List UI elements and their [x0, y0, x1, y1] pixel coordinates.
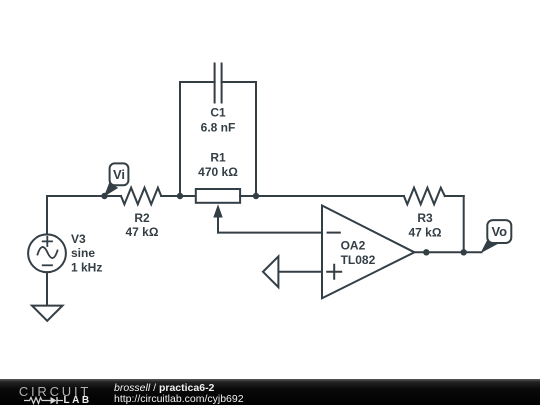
node junction dot — [253, 193, 259, 199]
svg-text:470 kΩ: 470 kΩ — [198, 165, 238, 179]
capacitor C1 — [215, 64, 222, 103]
node junction dot — [177, 193, 183, 199]
wire — [180, 195, 196, 197]
label OA2 — [341, 238, 366, 252]
value 47 kΩ — [409, 225, 442, 239]
value 1 kHz — [71, 260, 102, 274]
svg-text:TL082: TL082 — [341, 253, 376, 267]
wire — [46, 272, 48, 305]
ground — [32, 306, 63, 321]
value 6.8 nF — [201, 121, 236, 135]
potentiometer R1 body — [196, 189, 240, 203]
wire C1 branch right — [222, 82, 256, 196]
wire — [218, 232, 322, 234]
value 47 kΩ — [126, 225, 159, 239]
node junction dot — [423, 249, 429, 255]
svg-text:sine: sine — [71, 246, 95, 260]
label C1 — [210, 105, 226, 119]
wire — [414, 251, 481, 253]
svg-text:R2: R2 — [134, 211, 150, 225]
node flag Vi — [104, 163, 128, 196]
label V3 — [71, 232, 86, 246]
value 470 kΩ — [198, 165, 238, 179]
svg-text:Vo: Vo — [491, 224, 507, 239]
svg-text:R1: R1 — [210, 150, 226, 164]
svg-text:1 kHz: 1 kHz — [71, 260, 102, 274]
wire — [47, 195, 105, 197]
label R2 — [134, 211, 150, 225]
svg-text:R3: R3 — [417, 211, 433, 225]
wire C1 branch left — [180, 82, 215, 196]
value TL082 — [341, 253, 376, 267]
wire — [161, 195, 180, 197]
ground (left-pointing) — [263, 256, 278, 287]
svg-text:C1: C1 — [210, 105, 226, 119]
node Vi junction dot — [101, 193, 107, 199]
svg-text:6.8 nF: 6.8 nF — [201, 121, 236, 135]
value sine — [71, 246, 95, 260]
CircuitLab logo — [17, 384, 93, 399]
resistor R2 — [121, 188, 161, 205]
wire — [105, 195, 122, 197]
node junction dot — [461, 249, 467, 255]
wire — [445, 195, 464, 197]
wire — [463, 196, 465, 252]
resistor R3 — [404, 188, 445, 205]
wire — [240, 195, 256, 197]
footer bar — [0, 379, 540, 405]
source V3 — [28, 234, 66, 272]
svg-text:47 kΩ: 47 kΩ — [126, 225, 159, 239]
svg-text:V3: V3 — [71, 232, 86, 246]
label R1 — [210, 150, 226, 164]
label R3 — [417, 211, 433, 225]
wire — [256, 195, 404, 197]
svg-text:Vi: Vi — [113, 167, 125, 182]
node flag Vo — [480, 220, 511, 253]
wire — [278, 271, 322, 273]
wire — [46, 196, 48, 234]
svg-text:OA2: OA2 — [341, 238, 366, 252]
op-amp OA2 — [322, 206, 414, 299]
potentiometer R1 wiper arrow — [213, 204, 222, 232]
svg-text:47 kΩ: 47 kΩ — [409, 225, 442, 239]
